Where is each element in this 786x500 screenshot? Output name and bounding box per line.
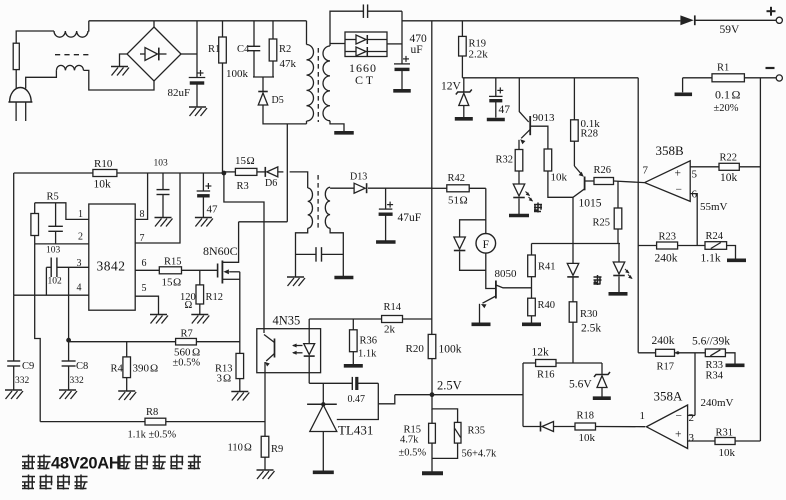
svg-text:Ω: Ω [247,155,255,167]
wire [461,21,463,37]
svg-text:240mV: 240mV [701,397,734,409]
wire [596,426,646,428]
wire [337,383,379,419]
resistor R9 [261,436,269,457]
wire [573,141,575,166]
resistor R8 [145,418,166,425]
wire [461,56,463,78]
wire [618,244,620,263]
svg-text:51: 51 [448,195,459,207]
resistor R40 [528,298,536,316]
wire [309,318,381,320]
svg-text:R9: R9 [271,444,283,455]
wire [263,106,307,124]
transformer T1 core [317,48,319,122]
wire [523,426,541,428]
wire [357,382,379,384]
resistor R31 [715,438,735,445]
diode D [454,237,466,249]
svg-text:59V: 59V [720,24,741,36]
wire [522,363,524,427]
ground [727,258,746,262]
wire [153,21,155,27]
svg-text:2k: 2k [384,324,396,336]
wire [272,61,274,77]
wire [368,10,402,12]
svg-text:R17: R17 [657,362,675,373]
wire [638,352,655,354]
ground [609,292,628,296]
wire [585,180,594,182]
ground [376,240,396,244]
svg-text:3842: 3842 [97,259,126,274]
wire [688,414,695,416]
svg-text:R35: R35 [468,426,486,437]
bridge rectifier BR1 [127,27,181,81]
svg-text:1015: 1015 [579,198,602,210]
wire [690,194,697,246]
resistor R19 [459,36,467,56]
wire [554,426,576,428]
ground [111,66,128,68]
wire [322,383,324,403]
svg-text:3: 3 [217,373,223,385]
svg-text:5: 5 [142,283,147,294]
ground [257,469,274,471]
wire [196,341,239,343]
wire [402,20,680,22]
wire [224,171,236,173]
wire [431,359,433,395]
capacitor 102 [50,258,52,278]
wire [403,318,432,320]
svg-text:±0.5%: ±0.5% [399,448,427,459]
svg-text:R28: R28 [581,129,599,140]
svg-text:R42: R42 [448,173,466,184]
svg-text:7: 7 [643,165,649,177]
wire [35,203,89,220]
wire [262,77,264,92]
wire [495,78,497,97]
resistor R1 shunt [712,74,744,82]
AC plug [10,88,32,103]
resistor R18 [575,423,596,430]
wire [16,31,54,43]
svg-text:D6: D6 [265,178,277,189]
wire [727,246,736,259]
diode D [567,263,579,275]
junction [66,338,71,343]
ground [675,93,693,97]
svg-text:47k: 47k [280,58,297,70]
capacitor 47uF aux [385,188,387,209]
svg-text:9013: 9013 [533,112,556,124]
wire [531,244,533,256]
ground [155,217,172,219]
svg-text:−: − [676,184,683,196]
wire [725,353,735,364]
svg-text:8: 8 [140,209,145,220]
svg-text:R18: R18 [577,411,595,422]
svg-text:358A: 358A [654,389,684,404]
wire [759,78,761,441]
svg-text:+: + [675,168,682,180]
wire [469,187,486,189]
ground [150,314,167,316]
resistor R15 4.7k [431,409,433,423]
svg-text:47uF: 47uF [398,212,422,224]
svg-text:R22: R22 [720,153,738,164]
ground [313,470,334,474]
capacitor 470uF [394,63,410,65]
wire [34,236,36,244]
resistor R17 [656,349,675,356]
resistor R15 [159,267,181,274]
svg-text:15: 15 [162,277,174,289]
wire [135,173,180,243]
wire [15,70,17,89]
ground [455,117,473,121]
svg-text:15: 15 [235,155,247,167]
ground [59,389,76,391]
svg-text:R31: R31 [716,428,734,439]
junction VCC node [222,171,227,176]
wire [573,78,575,120]
svg-text:R32: R32 [496,155,514,166]
capacitor 103 [162,173,164,190]
wire [45,267,47,295]
svg-text:R3: R3 [237,181,249,192]
resistor R41 [528,255,536,277]
zener 12V [463,78,465,92]
wire [532,243,621,245]
terminal - output [776,75,782,81]
IC 3842 [89,204,135,310]
wire [531,277,533,299]
transistor 1015 [584,177,586,191]
zener 5.6V [601,363,603,375]
svg-text:uF: uF [411,44,423,56]
svg-text:4: 4 [77,283,82,294]
wire [199,304,201,315]
svg-text:12V: 12V [441,81,462,93]
common-mode choke L1 upper winding [54,31,88,37]
svg-text:102: 102 [48,277,63,287]
capacitor C8 [68,340,70,361]
svg-text:Ω: Ω [185,300,193,311]
wire [308,319,310,344]
wire [135,269,159,271]
wire [460,251,486,270]
resistor 10k [544,149,552,171]
ground [593,396,611,400]
resistor R10 [93,170,117,177]
svg-text:−: − [676,411,683,423]
LED in 4N35 [304,344,315,355]
svg-text:332: 332 [15,376,30,386]
wire [744,77,776,79]
svg-text:390: 390 [133,363,150,375]
svg-text:R2: R2 [279,44,291,55]
svg-text:8N60C: 8N60C [203,244,238,258]
wire [278,171,284,173]
wire [84,70,155,90]
svg-text:1: 1 [78,209,83,220]
ground [191,314,208,316]
capacitor C4 [248,45,261,47]
wire [572,244,574,264]
wire [683,77,712,79]
wire [618,276,620,292]
svg-text:3: 3 [689,432,695,444]
resistor R22 [719,163,739,170]
svg-text:10k: 10k [719,447,736,459]
wire [548,171,573,197]
resistor R16 [536,360,556,367]
svg-text:R7: R7 [181,329,193,340]
resistor R25 [614,208,622,229]
ground [522,322,541,326]
wire [290,172,308,188]
wire [330,11,363,46]
wire [35,244,41,422]
svg-text:±0.5%: ±0.5% [173,358,201,369]
svg-text:±20%: ±20% [714,103,739,114]
svg-text:103: 103 [154,159,169,169]
wire [637,78,639,353]
svg-text:C8: C8 [76,361,88,372]
wire [352,352,354,364]
wire [572,277,574,301]
transformer T1 aux winding right [325,187,330,228]
ground [422,471,443,475]
ground [726,363,745,367]
wire [573,189,585,244]
svg-text:Ω: Ω [150,363,158,375]
wire [222,63,224,173]
resistor R7 [176,338,197,345]
svg-text:R14: R14 [384,302,402,313]
svg-text:8050: 8050 [495,268,518,280]
svg-text:R23: R23 [659,232,677,243]
svg-text:Ω: Ω [732,88,741,102]
wire [135,173,147,219]
wire [432,443,458,458]
wire [395,394,523,396]
wire [694,353,696,415]
wire [572,322,574,363]
wire [87,21,90,31]
ground [287,276,304,278]
ground [334,131,354,135]
LED green [513,184,525,196]
wire [166,421,265,423]
svg-text:100k: 100k [439,344,462,356]
svg-text:10k: 10k [579,432,596,444]
wire [688,440,715,442]
wire [739,166,760,168]
choke core [55,54,89,56]
diode D6 [264,167,266,177]
svg-text:6: 6 [142,258,147,269]
svg-text:2.2k: 2.2k [469,49,489,61]
svg-text:R16: R16 [537,370,555,381]
wire [486,253,496,288]
wire [330,43,345,45]
ground [487,118,505,122]
wire [330,121,344,132]
svg-text:C T: C T [355,73,374,87]
ground [189,106,206,108]
svg-text:0.1: 0.1 [715,88,730,102]
resistor R30 [569,302,577,322]
wire [26,70,57,88]
svg-text:R12: R12 [206,292,224,303]
wire [460,220,486,237]
resistor R24 [705,242,727,250]
svg-text:Ω: Ω [244,443,252,454]
transformer T1 aux winding left [308,188,313,228]
svg-text:82uF: 82uF [168,87,191,99]
wire [695,19,777,21]
rectifier 1660 CT [345,32,387,57]
svg-text:2.5V: 2.5V [437,379,462,393]
LED red [613,262,625,274]
junction [676,351,679,354]
wire [196,21,198,78]
ground [344,364,363,368]
wire [432,395,458,423]
svg-text:R25: R25 [593,218,611,229]
svg-text:D5: D5 [272,95,284,106]
svg-text:47: 47 [207,204,219,216]
svg-text:10k: 10k [94,179,112,191]
svg-text:55mV: 55mV [700,201,728,213]
svg-text:R41: R41 [538,262,556,273]
wire [617,229,619,244]
svg-text:4N35: 4N35 [273,314,301,328]
wire [485,188,487,233]
diode D13 [354,183,365,193]
wire [35,243,89,245]
wire [253,21,255,47]
resistor R12 [199,270,201,285]
wire [556,362,602,364]
diode D5 [258,91,268,93]
svg-text:R15: R15 [164,257,182,268]
resistor R1 [219,37,227,63]
svg-text:5.6V: 5.6V [569,379,592,391]
svg-text:R1: R1 [717,63,729,74]
svg-text:R34: R34 [706,371,724,382]
wire [253,51,255,77]
svg-text:R36: R36 [360,336,378,347]
title text [22,455,35,470]
wire [401,11,403,64]
svg-text:Ω: Ω [460,195,468,207]
ground [118,390,135,392]
wire [682,78,684,93]
svg-text:R33: R33 [706,360,724,371]
wire [120,54,128,67]
resistor R33 R34 [705,349,725,357]
svg-text:C9: C9 [22,361,34,372]
capacitor 47uF [489,95,503,97]
op-amp 358B [645,161,691,202]
svg-text:10k: 10k [551,172,568,184]
svg-text:1.1k: 1.1k [701,253,721,265]
wire [638,245,656,247]
fuse F1 [13,43,19,69]
node 2.5V [430,392,435,397]
svg-text:1.1k ±0.5%: 1.1k ±0.5% [128,430,177,441]
diode D output [680,15,693,25]
resistor R28 [571,120,579,141]
optocoupler 4N35 [257,329,321,373]
capacitor 0.47 [351,377,353,390]
svg-text:R8: R8 [146,407,158,418]
wire [57,266,89,268]
svg-text:1: 1 [640,410,646,422]
wire [308,357,310,384]
ground [334,276,353,280]
wire [462,77,638,79]
svg-text:R30: R30 [580,309,598,320]
meter F fan [476,234,496,254]
transformer T1 secondary winding [323,46,330,121]
svg-text:100k: 100k [226,68,249,80]
svg-text:R1: R1 [208,44,220,55]
wire [523,362,536,364]
wire [479,304,481,323]
wire [675,352,706,354]
wire [518,140,520,150]
wire [253,76,274,78]
svg-text:2: 2 [78,232,83,243]
capacitor 47uF vcc [202,173,204,191]
wire [368,187,432,189]
wire [322,432,324,471]
wire [617,181,619,208]
ground [195,217,212,219]
wire [531,316,533,323]
svg-text:D13: D13 [350,172,367,183]
svg-text:103: 103 [46,246,61,256]
resistor R36 [352,319,354,330]
svg-text:240k: 240k [655,253,678,265]
resistor R20 [428,334,436,358]
svg-text:R24: R24 [706,231,724,242]
wire [735,440,760,442]
wire [222,21,224,37]
wire [518,171,520,184]
ground [472,322,491,326]
wire [89,20,307,22]
svg-text:332: 332 [70,376,85,386]
wire [117,172,224,174]
svg-text:R5: R5 [47,192,59,203]
wire [257,171,265,173]
resistor R3 [235,168,257,175]
resistor R2 [269,39,277,61]
resistor R14 [382,316,403,323]
svg-text:2: 2 [689,412,695,424]
wire [330,187,354,189]
svg-text:TL431: TL431 [338,423,373,438]
resistor R23 [657,242,678,249]
diode D [540,422,542,432]
svg-text:5: 5 [692,169,698,181]
